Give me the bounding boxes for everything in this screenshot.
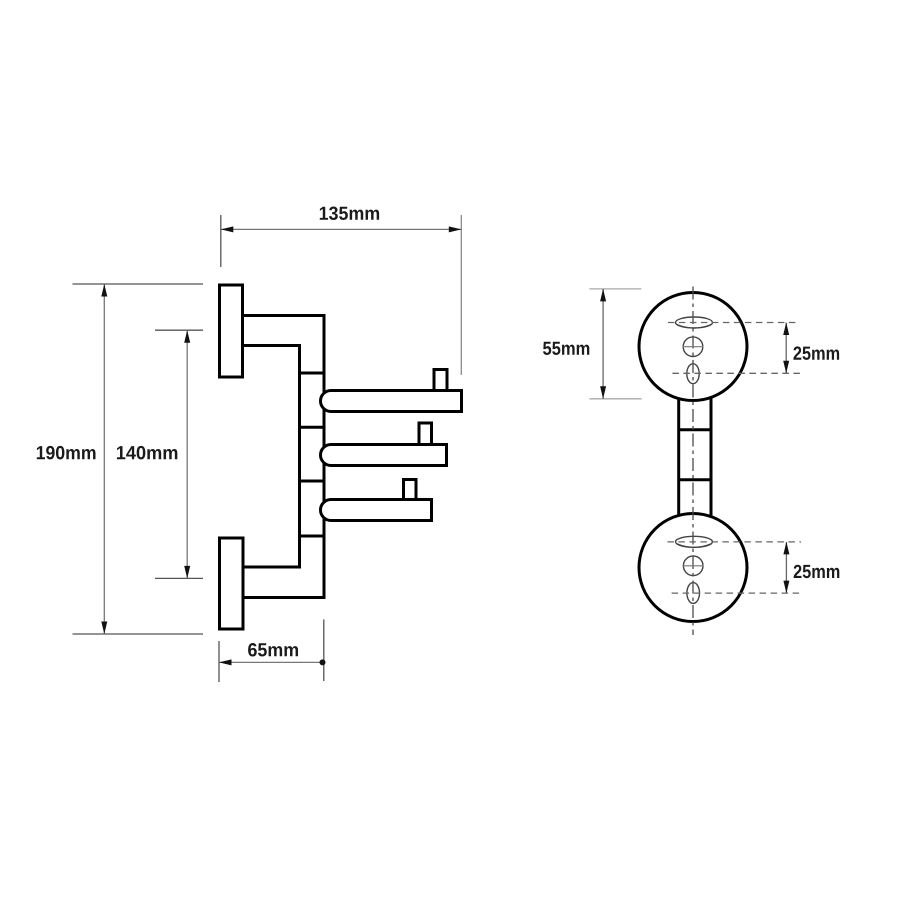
top rosette screw circle (683, 337, 703, 357)
dimension 25mm bottom arrow down (783, 581, 789, 594)
dimension 25mm top label (793, 346, 839, 360)
dimension 25mm top arrow down (783, 361, 789, 374)
dimension 55mm label (543, 342, 589, 355)
dimension 135mm extension line right (460, 215, 462, 375)
connecting post bar (679, 394, 711, 518)
dimension 65mm line (219, 661, 324, 663)
dimension 65mm arrow left (219, 659, 232, 665)
wall plate (bottom) (220, 538, 244, 629)
dimension 140mm line (186, 330, 188, 578)
dimension 65mm end dot (320, 659, 326, 665)
dimension 140mm arrow bottom (184, 566, 190, 579)
dimension 65mm label (248, 643, 298, 657)
dimension 25mm top line (785, 323, 787, 374)
dimension 135mm arrow right (449, 226, 462, 232)
wall plate (top) (220, 285, 243, 377)
hook arm 2 (middle) (321, 445, 447, 466)
post divider 4 (298, 535, 326, 538)
dimension 190mm extension line top (73, 283, 204, 285)
dimension 55mm extension line bottom (589, 398, 641, 400)
post bar divider 2 (679, 478, 711, 481)
post divider 3 (298, 480, 326, 483)
hook arm 1 (top) (321, 391, 462, 412)
dimension 190mm label (37, 446, 96, 460)
dimension 55mm arrow top (600, 289, 606, 302)
dimension 135mm label (320, 207, 379, 221)
post bar divider 1 (679, 428, 711, 431)
hook arm 3 (bottom) (321, 500, 432, 521)
top rosette slot lower contour (677, 325, 711, 329)
bottom rosette slot lower contour (677, 544, 711, 548)
dashed reference line top oval (672, 372, 800, 374)
dimension 190mm line (103, 284, 105, 634)
dimension 140mm extension line top (155, 329, 203, 331)
rosette circle (top) (639, 293, 747, 401)
dimension 25mm bottom arrow up (783, 542, 789, 555)
dimension 135mm extension line left (220, 215, 222, 267)
dimension 140mm extension line bottom (155, 577, 203, 579)
dimension 25mm bottom label (794, 565, 840, 579)
dimension 190mm extension line bottom (73, 633, 204, 635)
rosette circle (bottom) (639, 514, 747, 622)
hook 2 tip tab (419, 423, 432, 445)
top rosette oval hole (687, 364, 699, 384)
dashed reference line top slot (668, 322, 800, 324)
hook 3 tip tab (404, 480, 417, 501)
dimension 65mm extension line left (218, 641, 220, 682)
dimension 25mm bottom line (785, 542, 787, 593)
dimension 140mm label (117, 446, 177, 460)
bracket body: top arm + swivel post + bottom arm (243, 316, 325, 598)
dimension 190mm arrow top (101, 284, 107, 297)
dimension 135mm arrow left (221, 226, 234, 232)
dimension 25mm top arrow up (783, 323, 789, 336)
dimension 65mm extension line right (323, 619, 325, 681)
bottom rosette slot hole (676, 536, 713, 547)
hook 1 tip tab (434, 370, 447, 392)
dashed reference line bottom oval (672, 592, 801, 594)
dimension 190mm arrow bottom (101, 622, 107, 635)
top screw circle center tick (683, 346, 704, 348)
dashed reference line bottom slot (667, 541, 801, 543)
bottom screw circle center tick (683, 565, 704, 567)
vertical centerline (692, 287, 694, 636)
dimension 55mm arrow bottom (600, 386, 606, 399)
bottom rosette screw circle (683, 556, 703, 576)
dimension 135mm line (221, 228, 461, 230)
bottom rosette oval hole (687, 583, 700, 604)
dimension 55mm extension line top (589, 288, 641, 290)
post divider 1 (298, 372, 326, 375)
post divider 2 (298, 426, 326, 429)
top rosette slot hole (676, 317, 713, 328)
dimension 140mm arrow top (184, 330, 190, 343)
dimension 55mm line (602, 289, 604, 399)
